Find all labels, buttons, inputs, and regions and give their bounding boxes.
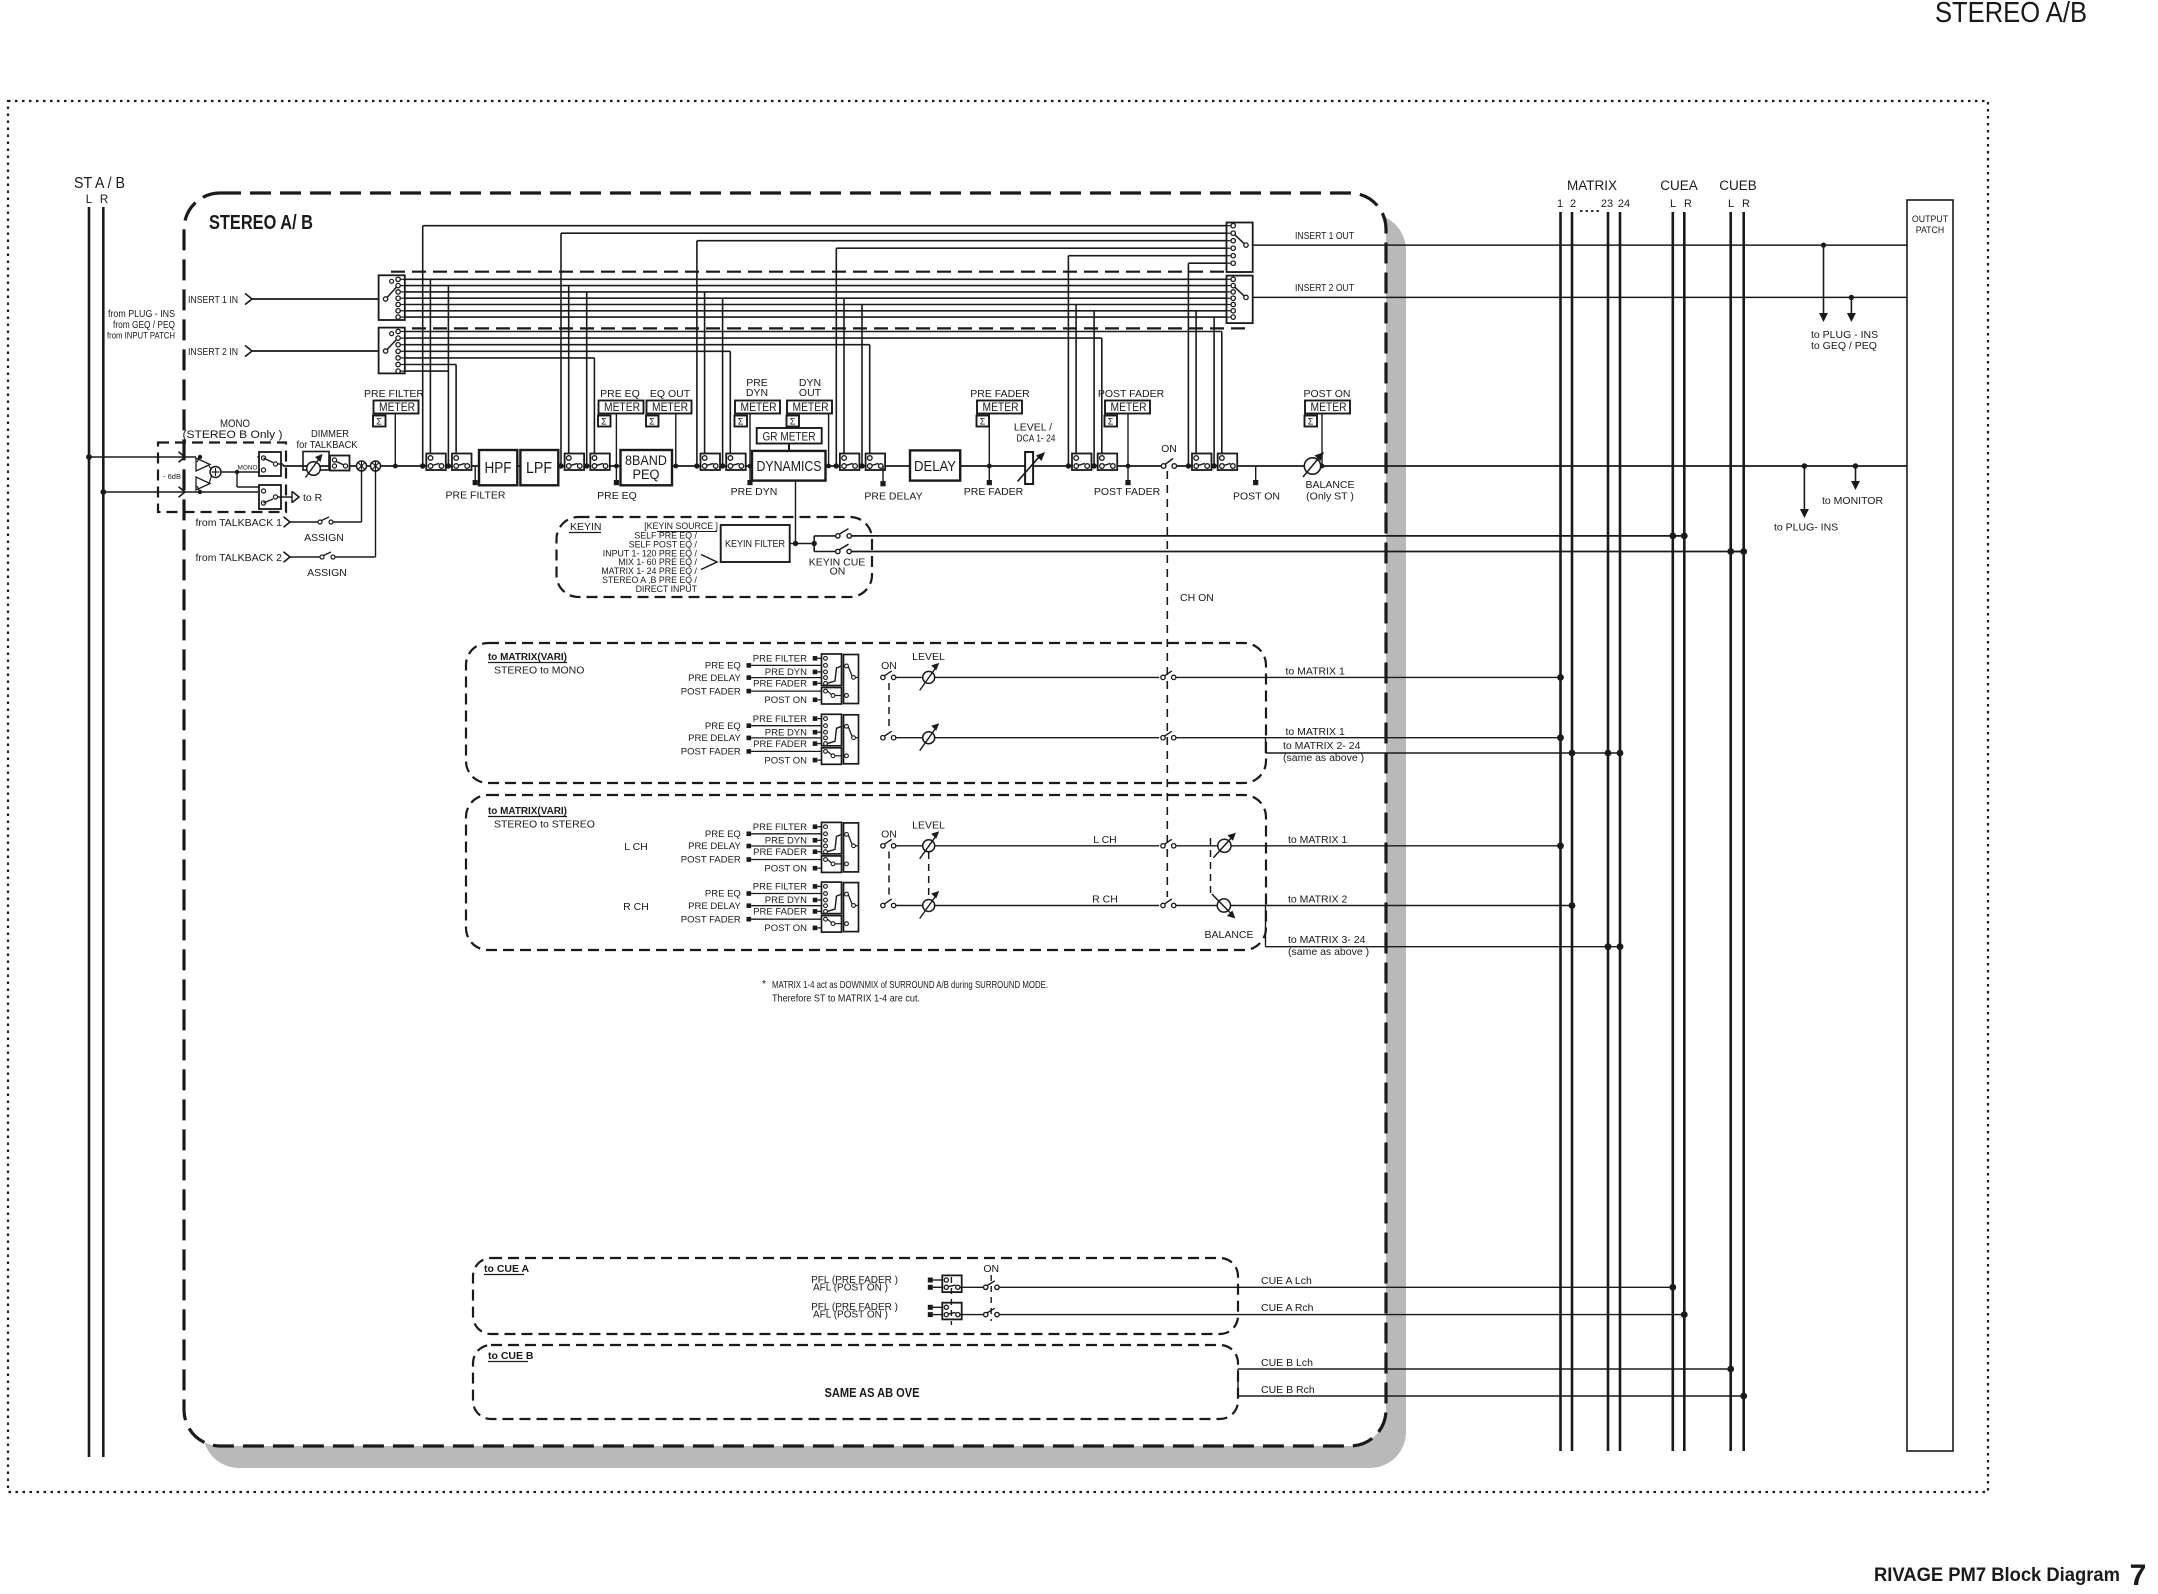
- wire to MATRIX 2-24 branch: [1266, 738, 1624, 764]
- svg-text:METER: METER: [741, 402, 777, 414]
- svg-text:PRE FADER: PRE FADER: [964, 486, 1024, 498]
- switch MONO select A: [257, 452, 281, 476]
- switch insert2 point PRE FILTER: [452, 454, 472, 471]
- svg-text:CUEA: CUEA: [1660, 178, 1698, 193]
- switch MONO select B: [259, 485, 281, 509]
- switch matrix stereo R ON: [881, 899, 923, 908]
- switch insert2 point POST ON: [1218, 454, 1238, 471]
- wire MATRIX column 24: [1619, 212, 1622, 1451]
- block DELAY: [910, 450, 960, 480]
- switch INSERT 1 OUT selector: [1227, 223, 1253, 273]
- STEREO A/B block title: [209, 212, 313, 234]
- knob matrix stereo R LEVEL: [920, 891, 1159, 919]
- meter PRE FILTER: [364, 388, 424, 468]
- svg-text:ON: ON: [1161, 443, 1177, 455]
- svg-text:for TALKBACK: for TALKBACK: [297, 439, 358, 451]
- svg-text:CH ON: CH ON: [1180, 592, 1214, 604]
- svg-text:STEREO to STEREO: STEREO to STEREO: [494, 819, 595, 831]
- wire CUEB L column: [1729, 212, 1732, 1451]
- wire insert2 return track to location 4: [405, 345, 870, 456]
- wire from TALKBACK 1: [195, 471, 361, 529]
- svg-text:POST ON: POST ON: [764, 755, 807, 766]
- wire MATRIX column 2: [1571, 212, 1574, 1451]
- svg-text:GR METER: GR METER: [763, 432, 816, 444]
- svg-text:from TALKBACK 1: from TALKBACK 1: [195, 517, 282, 529]
- svg-text:CUEB: CUEB: [1719, 178, 1757, 193]
- block HPF: [479, 450, 517, 485]
- wire matrix balance dashed link: [1210, 838, 1212, 896]
- node KEYIN SOURCE list: [601, 521, 718, 594]
- wire CUEA R column: [1683, 212, 1686, 1451]
- wire ST A/B L column: [88, 207, 91, 1457]
- svg-text:RIVAGE PM7 Block Diagram: RIVAGE PM7 Block Diagram: [1874, 1565, 2120, 1586]
- node KEYIN source chevron: [701, 555, 717, 570]
- node to CUE A label: [484, 1263, 530, 1275]
- svg-text:to MATRIX 1: to MATRIX 1: [1286, 726, 1345, 738]
- wire to MONITOR arrow (main): [1822, 466, 1883, 507]
- wire CUE B bracket: [1237, 1369, 1239, 1396]
- switch insert1 point PRE DYN: [701, 454, 721, 471]
- page number 7: [2130, 1559, 2147, 1592]
- page title STEREO A/B: [1935, 0, 2087, 29]
- block KEYIN FILTER: [721, 525, 790, 562]
- svg-text:METER: METER: [793, 402, 829, 414]
- svg-text:Σ: Σ: [1108, 417, 1114, 427]
- svg-text:Σ: Σ: [790, 417, 796, 427]
- svg-text:PRE DELAY: PRE DELAY: [688, 733, 741, 744]
- svg-text:PRE DYN: PRE DYN: [765, 727, 807, 738]
- svg-text:MONO: MONO: [238, 465, 258, 472]
- switch insert1 point POST FADER: [1072, 454, 1092, 471]
- switch insert1 point PRE DELAY: [840, 454, 860, 471]
- svg-text:STEREO to MONO: STEREO to MONO: [494, 665, 584, 677]
- wire insert2 return track to location 3: [405, 351, 731, 455]
- svg-text:BALANCE: BALANCE: [1204, 929, 1253, 941]
- svg-text:AFL (POST ON ): AFL (POST ON ): [813, 1283, 888, 1294]
- node keyin cue B dots: [1727, 548, 1747, 555]
- node from PLUG-INS / GEQ/PEQ / INPUT PATCH: [107, 309, 175, 342]
- svg-text:to MATRIX 3- 24: to MATRIX 3- 24: [1288, 934, 1366, 946]
- wire insert1 return / insert2 send track 2: [405, 286, 1227, 469]
- svg-text:PRE DYN: PRE DYN: [765, 836, 807, 847]
- node main output junction dots: [1802, 463, 1859, 469]
- meter EQ OUT: [646, 388, 692, 468]
- svg-text:POST ON: POST ON: [764, 923, 807, 934]
- wire CUE B Rch: [1238, 1384, 1747, 1399]
- block to MATRIX(VARI) STEREO to MONO dashed box: [466, 643, 1266, 783]
- switch insert1 point PRE FILTER: [426, 454, 446, 471]
- meter PRE FADER: [964, 388, 1030, 498]
- svg-text:OUT: OUT: [799, 387, 822, 399]
- wire insert region dashed separator 1: [391, 271, 1245, 273]
- switch CUE A L ON: [983, 1263, 1676, 1291]
- svg-text:Σ: Σ: [376, 417, 382, 427]
- svg-text:PRE FADER: PRE FADER: [753, 739, 807, 750]
- svg-text:PRE FILTER: PRE FILTER: [753, 882, 807, 893]
- svg-text:L: L: [1670, 198, 1676, 210]
- svg-text:PRE DELAY: PRE DELAY: [688, 841, 741, 852]
- footer RIVAGE PM7 Block Diagram: [1874, 1565, 2120, 1586]
- node ASSIGN 2: [307, 567, 347, 579]
- STEREO A/B dashed block: [184, 193, 1386, 1446]
- wire CUEA L column: [1672, 212, 1675, 1451]
- svg-text:PEQ: PEQ: [633, 467, 660, 482]
- svg-text:DIRECT INPUT: DIRECT INPUT: [636, 584, 698, 594]
- svg-text:AFL (POST ON ): AFL (POST ON ): [813, 1310, 888, 1321]
- node talkback sum 2: [371, 461, 381, 471]
- svg-text:from INPUT PATCH: from INPUT PATCH: [107, 331, 175, 342]
- svg-text:POST ON: POST ON: [1303, 388, 1350, 400]
- wire CH ON dashed: [1167, 471, 1214, 897]
- node L CH label: [624, 841, 648, 853]
- node to CUE B label: [488, 1350, 534, 1362]
- svg-text:Therefore ST to MATRIX 1-4 are: Therefore ST to MATRIX 1-4 are cut.: [772, 994, 920, 1005]
- meter PRE DYN: [731, 377, 780, 498]
- node CUEA header: [1660, 178, 1698, 210]
- knob matrix stereo L LEVEL: [912, 820, 1159, 859]
- wire from TALKBACK 2: [195, 471, 375, 564]
- svg-text:ON: ON: [881, 829, 897, 841]
- block OUTPUT PATCH: [1907, 200, 1953, 1451]
- svg-text:POST FADER: POST FADER: [681, 914, 741, 925]
- svg-text:PRE FILTER: PRE FILTER: [364, 388, 424, 400]
- svg-text:to CUE B: to CUE B: [488, 1350, 534, 1362]
- node DIMMER label: [297, 428, 358, 451]
- svg-text:Σ: Σ: [980, 417, 986, 427]
- node MONO block labels: [183, 418, 283, 441]
- wire CUEB R column: [1742, 212, 1745, 1451]
- wire CUE A selector dashed link: [950, 1277, 952, 1325]
- wire insert1 send from location 4: [834, 248, 1227, 468]
- wire insert1 return / insert2 send track 5: [405, 305, 1227, 469]
- svg-text:PATCH: PATCH: [1916, 225, 1945, 235]
- svg-text:R: R: [1742, 198, 1750, 210]
- node SAME AS ABOVE: [825, 1386, 920, 1400]
- wire insert2 return track to location 1: [405, 365, 456, 456]
- wire insert1 send from location 1: [420, 226, 1227, 469]
- switch insert2 point PRE DYN: [726, 454, 746, 471]
- svg-text:METER: METER: [1311, 402, 1347, 414]
- knob matrix mono L LEVEL: [912, 651, 1159, 690]
- meter PRE EQ: [597, 388, 643, 502]
- svg-text:to MATRIX 2- 24: to MATRIX 2- 24: [1283, 740, 1361, 752]
- svg-text:KEYIN FILTER: KEYIN FILTER: [725, 538, 785, 550]
- wire to GEQ/PEQ arrow (insert): [1847, 297, 1856, 322]
- svg-text:PRE FILTER: PRE FILTER: [753, 654, 807, 665]
- selector matrix stereo R source: [681, 882, 859, 935]
- svg-text:ON: ON: [830, 566, 846, 578]
- svg-text:R: R: [1684, 198, 1692, 210]
- node ASSIGN 1: [304, 532, 344, 544]
- svg-text:8BAND: 8BAND: [625, 453, 667, 468]
- svg-text:POST FADER: POST FADER: [1098, 388, 1165, 400]
- node to MATRIX(VARI) label 1: [488, 651, 584, 677]
- svg-text:ASSIGN: ASSIGN: [304, 532, 344, 544]
- node MONO sum: [209, 466, 221, 484]
- wire matrix mono ON dashed link: [888, 683, 890, 731]
- switch channel ON: [1161, 443, 1177, 468]
- svg-text:METER: METER: [379, 402, 415, 414]
- node to PLUG-INS / to GEQ/PEQ labels: [1811, 329, 1878, 352]
- svg-text:PRE FADER: PRE FADER: [753, 679, 807, 690]
- svg-text:24: 24: [1618, 198, 1630, 210]
- node keyin cue A dots: [1669, 533, 1687, 540]
- wire CUE B Lch: [1238, 1357, 1734, 1372]
- wire keyin cue split: [796, 536, 836, 552]
- svg-text:Σ: Σ: [601, 417, 607, 427]
- svg-text:to MATRIX(VARI): to MATRIX(VARI): [488, 651, 567, 663]
- svg-text:METER: METER: [983, 402, 1019, 414]
- wire insert1 return / insert2 send track 6: [405, 311, 1227, 469]
- svg-text:METER: METER: [652, 402, 688, 414]
- svg-text:LEVEL: LEVEL: [912, 651, 945, 663]
- svg-text:to CUE A: to CUE A: [484, 1263, 530, 1275]
- meter DYN OUT: [787, 377, 833, 468]
- wire MONO A out to main: [278, 464, 283, 466]
- svg-text:from PLUG - INS: from PLUG - INS: [108, 309, 175, 320]
- svg-text:PRE FADER: PRE FADER: [970, 388, 1030, 400]
- svg-text:DYNAMICS: DYNAMICS: [757, 459, 822, 475]
- svg-text:CUE A Rch: CUE A Rch: [1261, 1302, 1314, 1314]
- wire main chain segment A: [283, 465, 1162, 467]
- block 8BAND PEQ: [621, 450, 673, 485]
- svg-text:BALANCE: BALANCE: [1305, 479, 1354, 491]
- svg-text:PRE EQ: PRE EQ: [705, 661, 741, 672]
- wire INSERT 1 IN lead: [188, 293, 379, 306]
- svg-text:INSERT 1 IN: INSERT 1 IN: [188, 294, 238, 306]
- svg-text:ON: ON: [983, 1263, 999, 1275]
- switch INSERT 2 OUT selector: [1227, 276, 1253, 324]
- wire insert1 return / insert2 send track 7: [405, 316, 1227, 318]
- switch INSERT 2 IN selector: [379, 328, 405, 374]
- wire insert1 send from location 2: [558, 233, 1226, 468]
- selector matrix mono L source: [681, 654, 859, 707]
- node POST ON tap: [1233, 466, 1280, 503]
- svg-text:DELAY: DELAY: [914, 459, 956, 475]
- STEREO A/B block shadow: [203, 214, 1406, 1468]
- svg-text:1: 1: [1557, 198, 1563, 210]
- switch matrix stereo R ch-on: [1161, 899, 1218, 908]
- svg-text:POST FADER: POST FADER: [681, 747, 741, 758]
- svg-text:to MATRIX 1: to MATRIX 1: [1286, 666, 1345, 678]
- svg-text:CUE A Lch: CUE A Lch: [1261, 1275, 1312, 1287]
- svg-text:to MATRIX 2: to MATRIX 2: [1288, 894, 1347, 906]
- svg-text:POST ON: POST ON: [764, 863, 807, 874]
- node talkback sum 1: [357, 461, 367, 471]
- wire to PLUG-INS arrow (insert): [1819, 245, 1828, 322]
- node -6dB label: [163, 472, 181, 481]
- svg-text:PRE FILTER: PRE FILTER: [753, 714, 807, 725]
- knob matrix mono R LEVEL: [920, 723, 1159, 751]
- svg-text:*: *: [762, 978, 766, 990]
- svg-text:PRE DYN: PRE DYN: [731, 486, 778, 498]
- switch insert2 point POST FADER: [1098, 454, 1118, 471]
- svg-text:HPF: HPF: [485, 460, 512, 477]
- block LPF: [520, 450, 558, 485]
- switch matrix mono L ch-on: [1161, 666, 1564, 681]
- svg-text:R CH: R CH: [623, 901, 649, 913]
- selector CUE A L: [928, 1275, 984, 1292]
- wire L into MONO: [86, 452, 202, 462]
- block DYNAMICS: [752, 451, 826, 481]
- wire insert2 return track to location 5: [405, 338, 1102, 455]
- block KEYIN dashed box: [557, 517, 873, 597]
- svg-text:23: 23: [1601, 198, 1613, 210]
- svg-text:PRE FADER: PRE FADER: [753, 847, 807, 858]
- wire INSERT 2 IN lead: [188, 345, 379, 358]
- svg-text:STEREO A/ B: STEREO A/ B: [209, 212, 313, 234]
- wire insert1 return / insert2 send track 3: [405, 292, 1227, 469]
- wire insert2 return track to location 2: [405, 358, 595, 456]
- node surround note: [762, 978, 1048, 1005]
- svg-text:PRE EQ: PRE EQ: [705, 889, 741, 900]
- wire CUE A ON dashed link: [990, 1275, 992, 1321]
- svg-text:PRE FILTER: PRE FILTER: [446, 490, 506, 502]
- svg-text:PRE DYN: PRE DYN: [765, 667, 807, 678]
- svg-text:METER: METER: [1111, 402, 1147, 414]
- block to CUE A dashed box: [473, 1258, 1238, 1334]
- selector matrix stereo L source: [681, 822, 859, 875]
- selector matrix mono R source: [681, 714, 859, 767]
- node KEYIN label: [569, 521, 602, 533]
- switch matrix mono R ch-on: [1161, 726, 1564, 741]
- svg-text:to MATRIX(VARI): to MATRIX(VARI): [488, 805, 567, 817]
- wire INSERT 1 OUT line: [1253, 230, 1907, 248]
- svg-text:PRE DELAY: PRE DELAY: [688, 901, 741, 912]
- selector CUE A R: [928, 1303, 984, 1320]
- svg-text:(STEREO B Only ): (STEREO B Only ): [183, 429, 283, 441]
- switch KEYIN CUE ON upper: [836, 529, 1673, 539]
- svg-text:KEYIN: KEYIN: [570, 521, 602, 533]
- svg-text:to MONITOR: to MONITOR: [1822, 495, 1883, 507]
- svg-text:ON: ON: [881, 660, 897, 672]
- node PFL/AFL labels 1: [811, 1275, 898, 1294]
- node R CH label: [623, 901, 649, 913]
- svg-text:from GEQ / PEQ: from GEQ / PEQ: [113, 320, 175, 331]
- svg-text:METER: METER: [604, 402, 640, 414]
- svg-text:PRE DELAY: PRE DELAY: [688, 673, 741, 684]
- svg-text:PRE EQ: PRE EQ: [705, 829, 741, 840]
- amp L attenuator triangle: [196, 457, 210, 471]
- svg-text:L: L: [86, 194, 93, 206]
- svg-text:STEREO A/B: STEREO A/B: [1935, 0, 2087, 29]
- meter POST ON: [1303, 388, 1350, 468]
- wire MONO branch to lower switch: [237, 472, 259, 487]
- switch CUE A R ON: [984, 1308, 1688, 1318]
- svg-text:INSERT 1 OUT: INSERT 1 OUT: [1295, 230, 1354, 242]
- node PRE DELAY tap: [864, 466, 922, 503]
- svg-text:(same as above ): (same as above ): [1283, 752, 1364, 764]
- svg-text:DYN: DYN: [746, 387, 768, 399]
- switch insert1 point POST ON: [1192, 454, 1212, 471]
- svg-text:ASSIGN: ASSIGN: [307, 567, 347, 579]
- switch matrix mono R ON: [881, 731, 923, 740]
- amp R attenuator triangle: [196, 477, 210, 492]
- wire MATRIX column 23: [1607, 212, 1610, 1451]
- svg-text:POST FADER: POST FADER: [681, 686, 741, 697]
- node PRE FILTER tap: [446, 466, 506, 502]
- knob matrix stereo L balance: [1213, 833, 1564, 858]
- wire insert1 return / insert2 send track 1: [405, 279, 1227, 468]
- svg-text:to R: to R: [303, 492, 323, 504]
- block to MATRIX(VARI) STEREO to STEREO dashed box: [466, 795, 1266, 950]
- wire matrix stereo ON dashed link: [888, 852, 890, 900]
- switch matrix stereo L ch-on: [1161, 839, 1218, 848]
- svg-text:Σ: Σ: [1308, 417, 1314, 427]
- wire ST A/B R column: [102, 207, 105, 1457]
- svg-text:POST ON: POST ON: [764, 695, 807, 706]
- node MATRIX header: [1557, 178, 1630, 210]
- knob BALANCE (Only ST): [1303, 452, 1355, 503]
- wire insert region dashed separator 2: [391, 327, 1245, 329]
- block to CUE B dashed box: [473, 1345, 1238, 1419]
- node to MATRIX(VARI) label 2: [488, 805, 595, 831]
- svg-text:L CH: L CH: [1093, 834, 1117, 846]
- switch TALKBACK dim assign: [330, 456, 350, 471]
- wire insert2 return track to location 6: [405, 332, 1222, 456]
- fader LEVEL / DCA 1-24: [1014, 422, 1056, 485]
- svg-text:INSERT 2 IN: INSERT 2 IN: [188, 346, 238, 358]
- svg-text:PRE EQ: PRE EQ: [597, 490, 637, 502]
- svg-text:to MATRIX 1: to MATRIX 1: [1288, 834, 1347, 846]
- wire DYNAMICS keyin feed: [790, 481, 799, 547]
- meter GR METER: [757, 428, 822, 451]
- wire MATRIX column 1: [1559, 212, 1562, 1451]
- svg-text:R: R: [100, 194, 108, 206]
- svg-text:CUE B Lch: CUE B Lch: [1261, 1357, 1313, 1369]
- svg-text:- 6dB: - 6dB: [163, 472, 181, 481]
- wire main chain segment B: [1177, 465, 1908, 467]
- svg-text:R CH: R CH: [1092, 894, 1118, 906]
- svg-text:POST FADER: POST FADER: [1094, 486, 1161, 498]
- svg-text:L CH: L CH: [624, 841, 648, 853]
- wire MATRIX dotted continuation: [1580, 210, 1602, 212]
- switch matrix mono L ON: [881, 660, 923, 680]
- svg-text:7: 7: [2130, 1559, 2147, 1592]
- wire to PLUG-INS arrow (main): [1774, 466, 1838, 534]
- svg-text:POST FADER: POST FADER: [681, 855, 741, 866]
- svg-text:(same as above ): (same as above ): [1288, 946, 1369, 958]
- node CUEB header: [1719, 178, 1757, 210]
- node BALANCE label: [1204, 929, 1253, 941]
- svg-text:2: 2: [1570, 198, 1576, 210]
- wire insert2 return stub track 7: [405, 370, 449, 372]
- svg-text:SAME AS AB OVE: SAME AS AB OVE: [825, 1386, 920, 1400]
- svg-text:from TALKBACK 2: from TALKBACK 2: [195, 552, 282, 564]
- svg-text:OUTPUT: OUTPUT: [1912, 214, 1949, 224]
- svg-text:L: L: [1728, 198, 1734, 210]
- wire MONO sum output: [221, 465, 259, 475]
- node PFL/AFL labels 2: [811, 1302, 898, 1321]
- svg-text:LPF: LPF: [526, 460, 552, 477]
- svg-text:PRE DYN: PRE DYN: [765, 895, 807, 906]
- wire insert1 send from location 5: [1066, 256, 1227, 469]
- switch insert1 point PRE EQ: [565, 454, 585, 471]
- wire insert1 return / insert2 send track 4: [405, 298, 1227, 468]
- svg-text:PRE DELAY: PRE DELAY: [864, 491, 922, 503]
- svg-text:PRE FILTER: PRE FILTER: [753, 822, 807, 833]
- svg-text:EQ OUT: EQ OUT: [650, 388, 691, 400]
- knob DIMMER: [303, 452, 329, 478]
- node KEYIN CUE ON label: [809, 557, 866, 578]
- svg-text:INSERT 2 OUT: INSERT 2 OUT: [1295, 282, 1354, 294]
- wire insert1 send from location 3: [694, 241, 1226, 469]
- svg-text:ST A / B: ST A / B: [74, 175, 125, 192]
- node CUE A Lch label: [1261, 1275, 1312, 1287]
- svg-text:LEVEL: LEVEL: [912, 820, 945, 832]
- svg-text:Σ: Σ: [649, 417, 655, 427]
- svg-text:MATRIX: MATRIX: [1567, 178, 1617, 193]
